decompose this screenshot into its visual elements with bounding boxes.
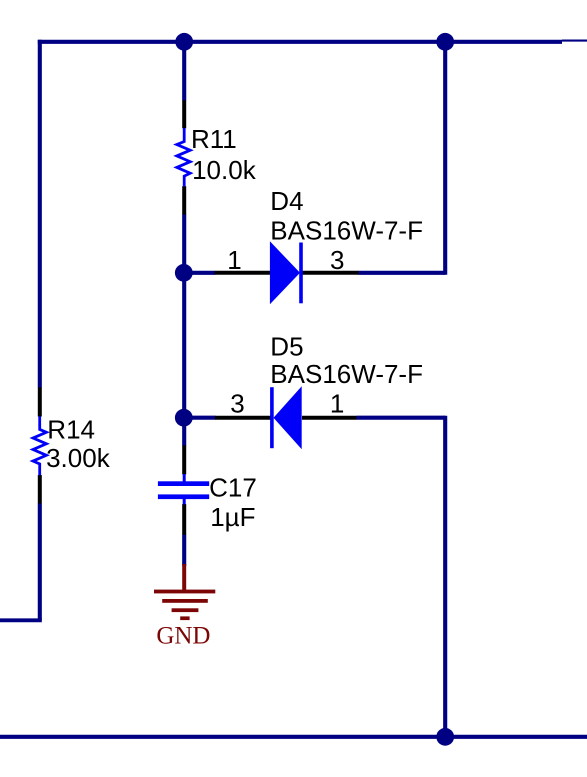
svg-text:D5: D5 [270,332,303,362]
svg-text:1µF: 1µF [210,502,255,532]
diode D4 cathode bar (blue) [299,243,303,304]
svg-text:BAS16W-7-F: BAS16W-7-F [270,359,423,389]
svg-text:1: 1 [330,389,344,419]
wire: center column from top junction to R11 [182,42,186,101]
svg-text:10.0k: 10.0k [192,155,257,185]
capacitor C17 pin 1 (top, black) [182,445,186,474]
resistor R14 pin 2 (bottom, black) [38,475,42,504]
capacitor C17 bottom plate (blue) [158,494,209,499]
wire: left vertical net lower segment [38,503,42,620]
wire: D5 anode to right column [357,416,446,420]
diode D4 pin 3 lead (cathode, black) [303,271,359,275]
junction dot on bottom net [436,728,454,746]
wire: bottom horizontal net [0,735,587,739]
wire: D5 cathode from junction [184,416,215,420]
junction node B: D5 cathode / C17 top [175,409,193,427]
diode D5 pin 1 lead (anode, black) [302,416,357,420]
ground symbol bar 4 (smallest) [180,616,189,620]
junction dot at top of center column [175,33,193,51]
diode D5 pin 3 lead (cathode, black) [215,416,271,420]
svg-text:3.00k: 3.00k [46,443,111,473]
wire: bottom-left stub to sheet edge [0,618,42,622]
wire: C17 to GND power port [182,535,186,567]
svg-text:R11: R11 [191,124,237,154]
svg-text:R14: R14 [47,414,95,444]
wire: D4 cathode to right column [359,271,446,275]
wire: right column top (junction to D4) [443,42,447,275]
junction node A: D4 anode / R11 bottom [175,264,193,282]
svg-text:BAS16W-7-F: BAS16W-7-F [270,215,423,245]
svg-text:D4: D4 [270,186,303,216]
wire: center column from R11 to D5 junction [182,214,186,419]
svg-text:1: 1 [227,245,241,275]
diode D5 cathode bar (blue) [270,387,274,448]
wire: left vertical net upper segment [38,40,42,388]
junction dot at top of right column [436,33,454,51]
resistor R11 pin 1 (top, black) [182,100,186,128]
resistor R14 body (blue zigzag) [33,416,46,475]
diode D4 body triangle (blue) [270,241,300,304]
ground symbol bar 3 [172,608,199,612]
svg-text:3: 3 [230,389,244,419]
capacitor C17 top plate (blue) [158,481,209,486]
svg-text:GND: GND [156,622,210,649]
diode D5 body triangle (blue) [274,386,302,449]
capacitor C17 top lead (blue) [183,474,186,482]
wire: top-right thin stub to sheet edge [562,40,587,42]
capacitor C17 pin 2 (bottom, black) [182,504,186,535]
resistor R11 pin 2 (bottom, black) [182,186,186,214]
ground symbol GND stem (dark red) [182,564,186,592]
ground symbol bar 1 (widest) [154,590,215,594]
svg-text:C17: C17 [209,473,257,503]
wire: top horizontal net [38,40,562,44]
resistor R14 pin 1 (top, black) [38,387,42,416]
wire: center column from D5 junction to C17 [182,418,186,446]
diode D4 pin 1 lead (anode, black) [215,271,271,275]
resistor R11 body (blue zigzag) [177,128,190,186]
svg-text:3: 3 [330,245,344,275]
wire: D4 anode from junction [184,271,215,275]
capacitor C17 bottom lead (blue) [183,499,186,505]
wire: right column bottom (D5 to bottom junction) [443,416,447,737]
ground symbol bar 2 [162,599,208,603]
